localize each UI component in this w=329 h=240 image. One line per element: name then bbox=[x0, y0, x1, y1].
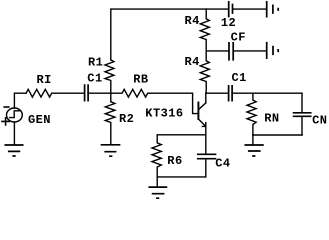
transistor Q1 KT316 base bar bbox=[197, 103, 199, 120]
wire top bus from R1 corner to capacitor 12 bbox=[111, 9, 228, 60]
svg-text:KT316: KT316 bbox=[145, 106, 183, 120]
capacitor C4 (vertical) bbox=[205, 135, 207, 154]
resistor RN (vertical) bbox=[247, 93, 256, 135]
wire from capacitor 12 to chassis ground bbox=[233, 8, 266, 10]
node at R1/R2/RB junction bbox=[110, 93, 112, 102]
wire C1 to node bbox=[89, 92, 111, 94]
capacitor C1 (input) bbox=[85, 85, 89, 101]
wire emitter node to R6 bbox=[157, 134, 206, 136]
wire RN node to ground bbox=[252, 135, 254, 144]
svg-text:R6: R6 bbox=[167, 154, 182, 168]
resistor RI (horizontal) bbox=[26, 89, 52, 97]
svg-text:CF: CF bbox=[231, 31, 246, 45]
chassis ground (sideways, top) bbox=[267, 2, 279, 17]
svg-text:CN: CN bbox=[312, 114, 327, 128]
svg-text:RI: RI bbox=[37, 73, 52, 87]
svg-text:R1: R1 bbox=[88, 56, 103, 70]
resistor R2 (vertical) bbox=[105, 102, 115, 144]
svg-text:12: 12 bbox=[221, 16, 236, 30]
capacitor CF bbox=[229, 43, 233, 60]
resistor R4 upper (vertical) bbox=[200, 9, 209, 51]
wire R6 bottom to ground bbox=[156, 177, 158, 187]
wire C1 output to RN/CN bbox=[233, 92, 302, 94]
transistor Q1 collector lead bbox=[198, 93, 205, 110]
svg-text:R4: R4 bbox=[185, 55, 200, 69]
wire CF row: junction to cap bbox=[206, 50, 228, 52]
ground (below R2) bbox=[102, 145, 120, 156]
GEN step waveform bbox=[10, 111, 20, 118]
wire collector node to C1 output bbox=[206, 92, 228, 94]
wire RB to transistor base bbox=[149, 93, 198, 113]
transistor Q1 emitter lead with arrow bbox=[198, 119, 205, 135]
svg-text:R2: R2 bbox=[119, 112, 134, 126]
wire R6 bottom to C4 bottom bbox=[157, 176, 206, 178]
wire CN bottom riser bbox=[301, 117, 303, 135]
svg-text:C1: C1 bbox=[232, 71, 247, 85]
ground (below R6) bbox=[149, 187, 166, 198]
chassis ground (sideways, CF row) bbox=[267, 43, 279, 58]
svg-text:C4: C4 bbox=[215, 156, 230, 170]
resistor RB (horizontal) bbox=[111, 89, 149, 97]
generator GEN symbol bbox=[6, 108, 22, 122]
wire CN top riser bbox=[301, 93, 303, 112]
ground (below RN) bbox=[245, 145, 263, 156]
svg-text:GEN: GEN bbox=[28, 113, 51, 127]
ground (below GEN) bbox=[5, 145, 22, 156]
wire RI to C1 bbox=[52, 92, 84, 94]
svg-text:RB: RB bbox=[133, 72, 148, 86]
svg-text:RN: RN bbox=[264, 112, 279, 126]
wire GEN top riser bbox=[14, 93, 26, 108]
capacitor CN (vertical) bbox=[294, 113, 311, 117]
GEN minus sign bbox=[4, 106, 9, 108]
resistor R6 (vertical) bbox=[152, 135, 161, 177]
svg-text:C1: C1 bbox=[87, 71, 102, 85]
svg-text:R4: R4 bbox=[185, 14, 200, 28]
GEN plus sign bbox=[2, 118, 9, 125]
resistor R1 (vertical) bbox=[105, 60, 114, 93]
wire GEN bottom to ground bbox=[13, 122, 15, 144]
wire RN bottom to CN bottom bbox=[253, 134, 302, 136]
capacitor C1 (output) bbox=[229, 86, 233, 101]
resistor R4 lower (vertical) bbox=[200, 51, 209, 93]
capacitor 12 (top right, to chassis) bbox=[229, 2, 233, 17]
wire from CF to chassis ground bbox=[234, 50, 266, 52]
